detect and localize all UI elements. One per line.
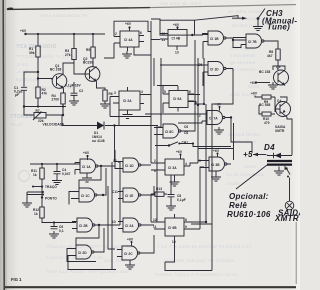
node keyer rail dots (41, 163, 58, 165)
wire leader line to relay (236, 165, 267, 189)
svg-text:2: 2 (154, 159, 156, 163)
node +6V above CI 3B (213, 149, 220, 157)
node +6V near R9 (251, 92, 258, 98)
gate CI 1B (203, 31, 233, 45)
svg-text:4k7: 4k7 (267, 54, 273, 58)
node +6V inside loop (173, 23, 180, 30)
wire CI3A pins (151, 163, 198, 170)
ground key common (22, 200, 32, 207)
wire R12 to bottom rail (42, 218, 76, 223)
svg-text:BC 558: BC 558 (259, 103, 271, 107)
diode D1 1N914 (92, 122, 109, 144)
svg-text:10: 10 (172, 240, 176, 244)
op-amp U CI 4A box (114, 31, 151, 55)
wire keyer top rail (30, 163, 80, 165)
svg-text:tica e pern: tica e pern (230, 46, 255, 52)
node +6V above CI 2C (127, 238, 134, 247)
capacitor C2 (71, 88, 84, 98)
wire bus x204 long (203, 58, 205, 104)
wire long verticals center (151, 21, 157, 222)
svg-text:?5 μF: ?5 μF (10, 122, 23, 128)
trimpot R7 VELOCIDADE (33, 109, 64, 127)
node +5 with arrow (243, 150, 266, 159)
gate CI 8C (158, 124, 188, 138)
svg-text:sita ureo sb. tesm: sita ureo sb. tesm (160, 1, 201, 7)
wire Q4 collector top to +6 (280, 97, 287, 101)
svg-text:.8 kΩ: .8 kΩ (16, 62, 29, 68)
wire R13 left down (150, 194, 152, 222)
wire CI7B inputs (233, 38, 241, 48)
svg-text:bo de choverado: bo de choverado (226, 172, 265, 178)
svg-text:XMTR: XMTR (274, 214, 299, 223)
svg-text:CI 1D: CI 1D (210, 68, 219, 72)
node +6V above CI 4A (125, 22, 132, 31)
svg-text:CI 2A: CI 2A (125, 224, 134, 228)
node CI7B input junction (232, 39, 234, 41)
ghost printed text background (10, 1, 276, 278)
relay contact (285, 167, 290, 177)
wire Q2 base (86, 73, 90, 75)
gate CI 1E lower right (112, 188, 146, 202)
svg-text:5: 5 (199, 159, 201, 163)
wire CI1A output to bus (79, 166, 115, 188)
wire CI9A pins (157, 85, 200, 113)
svg-text:1k: 1k (33, 173, 37, 177)
wire R10 left lead down (259, 105, 262, 114)
svg-text:CI 4A: CI 4A (124, 38, 133, 42)
wire R8 to Q3 base (277, 60, 279, 70)
label CH3 Manual-Tune handwritten (262, 9, 297, 32)
wire CI9A out to bus (194, 103, 204, 105)
svg-text:sinta belter: sinta belter (230, 53, 256, 59)
capacitor C8 (167, 192, 186, 202)
svg-text:C2: C2 (79, 89, 83, 93)
node bottom rail junction (53, 221, 55, 223)
node trimpot right junction (62, 114, 64, 116)
svg-text:CI 1C: CI 1C (81, 194, 90, 198)
gate CI 7A (197, 111, 228, 125)
wire diagonal to CH3 switch (195, 16, 239, 21)
svg-text:+6V: +6V (176, 150, 183, 154)
ground below C8 (166, 197, 176, 210)
gate CI 1D lower (113, 158, 146, 172)
wire CI9B pins (154, 222, 206, 229)
relay RU610-106 coil with diode D4 (267, 153, 292, 165)
svg-text:Relê: Relê (229, 201, 247, 210)
svg-text:C6: C6 (184, 125, 188, 129)
node +6V Q3 emitter (250, 81, 270, 85)
node CI2B output (98, 224, 100, 226)
svg-text:6: 6 (189, 90, 191, 94)
svg-text:0,1μF: 0,1μF (177, 198, 186, 202)
svg-text:13: 13 (112, 220, 116, 224)
wire bus x108 (108, 186, 115, 249)
switch CH3 (232, 9, 265, 24)
node +6V above CI 1A (83, 151, 90, 160)
svg-text:, conforme indicado ?m Circuit: , conforme indicado ?m Circuito. (160, 258, 235, 264)
wire Q4 emitter to relay rail (287, 117, 292, 155)
wire R2 bottom (37, 98, 39, 107)
wire CI1D-l inputs (115, 162, 118, 169)
svg-text:CI 2D: CI 2D (78, 251, 87, 255)
ground Q3 collector top (268, 66, 285, 89)
svg-text:sinale: sinale (226, 181, 240, 187)
switch CH2 lower (155, 141, 194, 147)
wire CI2D inputs (67, 249, 116, 270)
svg-text:2700: 2700 (52, 98, 60, 102)
wire CI7A inputs long bus (145, 114, 202, 123)
wire CI2D output (100, 228, 104, 252)
gate CI 2A lower (112, 218, 146, 232)
wire trimpot row (24, 104, 63, 115)
wire C1 top tap (24, 72, 38, 87)
svg-text:FIG 1: FIG 1 (11, 277, 22, 282)
svg-text:XMTR: XMTR (275, 129, 285, 133)
svg-text:5: 5 (164, 90, 166, 94)
svg-text:4: 4 (141, 90, 143, 94)
svg-text:CI 1A: CI 1A (82, 165, 91, 169)
wire outer loop rect CI 4B (160, 20, 195, 35)
wire R5 top lead (92, 34, 94, 47)
svg-text:movica ferida: movica ferida (228, 132, 259, 138)
svg-text:0,1μF/16V: 0,1μF/16V (65, 84, 82, 88)
svg-text:47k: 47k (42, 92, 48, 96)
resistor R11 (31, 164, 44, 185)
svg-text:CI 1B: CI 1B (210, 37, 219, 41)
top rule line (7, 8, 150, 10)
wire loop feed to CI 4B (151, 19, 160, 20)
wire CI7A output down to relay (225, 118, 252, 154)
ground below CI 2C (125, 260, 135, 269)
ground below CI 1A (82, 173, 92, 182)
svg-text:0,047: 0,047 (62, 172, 71, 176)
wire relay right to terminal (289, 178, 291, 182)
wire bus x161 (158, 58, 161, 128)
svg-text:13: 13 (175, 51, 179, 55)
op-amp U CI 2A box (110, 87, 151, 112)
svg-text:?CA DE AUDIO: ?CA DE AUDIO (16, 44, 57, 50)
node +6V above CI 7A (215, 103, 222, 111)
svg-text:TRAÇO: TRAÇO (45, 185, 57, 189)
resistor R2 (36, 87, 47, 98)
wire relay to contact (284, 166, 286, 170)
svg-text:CI 8C: CI 8C (165, 130, 174, 134)
transistor Q2 BC238 (83, 57, 100, 82)
svg-text:Tune): Tune) (267, 23, 290, 32)
node CI1A output (100, 165, 102, 167)
key PONTO (41, 196, 57, 200)
ground below CI 3B (211, 171, 221, 181)
wire key down to R12 (41, 187, 43, 208)
wire CI1B inputs (202, 42, 204, 59)
decorative ghost circle (19, 171, 30, 182)
wire Q1 collector up (63, 63, 74, 74)
node bus junctions (197, 104, 207, 223)
ground below CH3 (253, 24, 263, 31)
wire bottom long rail (165, 224, 212, 271)
wire key throws (27, 191, 44, 200)
gate CI 1C (74, 188, 103, 202)
ground below R6 (100, 101, 110, 108)
bottom page rule (5, 286, 296, 288)
wire Q1 base (38, 79, 52, 81)
wire diode to CI2A and down (109, 117, 158, 163)
wire CI1E output (146, 186, 154, 195)
svg-text:6: 6 (140, 31, 142, 35)
resistor R12 (33, 207, 44, 218)
svg-text:ou 4148: ou 4148 (92, 139, 105, 143)
svg-text:?onsma,?oloca o Transmissor no: ?onsma,?oloca o Transmissor no Ar, (154, 272, 238, 278)
svg-text:+6V: +6V (127, 238, 134, 242)
wire R4 bottom lead (62, 104, 64, 115)
svg-text:+5: +5 (243, 150, 253, 159)
svg-text:de corende: de corende (230, 67, 256, 73)
svg-text:CI 1D: CI 1D (125, 164, 134, 168)
node C1 tap junction (37, 71, 39, 73)
svg-text:470: 470 (264, 121, 270, 125)
gate CI 2D (71, 245, 100, 259)
ground below CI 3A (170, 179, 180, 186)
node diode output junction (113, 124, 115, 126)
transistor Q1 BC238 (50, 64, 67, 89)
wire bottom rail (24, 106, 66, 108)
node +6V above CI 3A (176, 150, 183, 159)
svg-text:12: 12 (153, 218, 157, 222)
key TRAÇO (32, 185, 57, 189)
wire CI4A feedback loop (104, 21, 151, 58)
wire +6V rail (26, 33, 106, 35)
wire CI8C inputs (154, 128, 158, 135)
resistor R3 (65, 49, 76, 60)
terminal SAIDA XMTR (274, 181, 304, 223)
wire R1 top lead (37, 34, 39, 46)
resistor R4 (52, 93, 66, 104)
left page edge line (2, 0, 5, 290)
svg-text:3: 3 (114, 91, 116, 95)
wire R1 bottom to base node (37, 57, 39, 87)
resistor R1 (29, 46, 40, 57)
capacitor C6 (51, 223, 64, 234)
svg-text:+6V: +6V (83, 151, 90, 155)
wire CI3B output down (230, 163, 232, 165)
wire CI1C inputs (69, 192, 74, 205)
svg-text:R5: R5 (86, 48, 90, 52)
resistor R6 (103, 90, 113, 101)
svg-text:8: 8 (185, 218, 187, 222)
ground below C6 (49, 231, 59, 238)
gate CI 2C (117, 246, 145, 260)
capacitor C1 (14, 86, 27, 107)
capacitor C4 (54, 164, 71, 178)
svg-text:12: 12 (162, 32, 166, 36)
svg-text:2: 2 (115, 32, 117, 36)
gate CI 1D (198, 62, 233, 76)
wire CI2B output bus (76, 225, 120, 246)
svg-text:PONTO: PONTO (45, 197, 57, 201)
transistor Q3 BC238 (259, 65, 289, 86)
wire vertical bus x119/120 (118, 110, 120, 225)
wire R5 bottom to Q2 collector (92, 58, 94, 67)
svg-text:+6V: +6V (173, 23, 180, 27)
wire CI4B left exit to bus (151, 39, 160, 41)
wire Q4 base (275, 97, 280, 112)
svg-text:snive: snive (244, 164, 256, 170)
label Opcional handwritten (227, 192, 271, 219)
svg-text:Opcional:: Opcional: (229, 192, 269, 201)
svg-text:0,1: 0,1 (59, 229, 64, 233)
svg-text:CI 2C: CI 2C (124, 252, 133, 256)
wire CI1B output to CI7B (233, 38, 246, 40)
wire diode anode left (62, 115, 93, 126)
svg-text:CI 7B: CI 7B (248, 40, 257, 44)
wire CI1D inputs left (160, 65, 203, 86)
svg-text:39k: 39k (29, 51, 35, 55)
svg-text:C11: C11 (112, 190, 118, 194)
svg-text:D4: D4 (264, 143, 275, 152)
op-amp U CI 4B box (160, 30, 187, 55)
transistor Q4 BC558 (259, 99, 291, 117)
label saida baixa (275, 125, 286, 133)
wire keyer bus to gates (75, 222, 78, 224)
op-amp U CI 9A box (163, 86, 194, 112)
ground below relay contact (274, 167, 284, 176)
wire CI2A-l output (146, 224, 154, 226)
svg-text:+6V: +6V (125, 22, 132, 26)
svg-text:CI 7A: CI 7A (209, 117, 218, 121)
node junction x204 (203, 103, 205, 105)
svg-text:CI 3A: CI 3A (168, 166, 177, 170)
svg-text:+6V: +6V (215, 103, 222, 107)
svg-text:R6: R6 (109, 92, 113, 96)
wire CI3B inputs (198, 161, 204, 168)
svg-text:27k: 27k (65, 53, 71, 57)
svg-text:BC238: BC238 (83, 61, 94, 65)
gate CI 3B (199, 157, 231, 171)
svg-text:CI 4B: CI 4B (172, 37, 181, 41)
svg-text:4: 4 (185, 162, 187, 166)
svg-text:kΩ trimpot: kΩ trimpot (16, 77, 40, 83)
resistor R9 horizontal (258, 95, 275, 104)
wire Q1 emitter to R4 (62, 89, 65, 94)
svg-text:CI 1E: CI 1E (125, 194, 133, 198)
svg-text:+6V: +6V (213, 149, 220, 153)
wire vertical bus x115 (114, 150, 116, 162)
svg-text:CI 2A: CI 2A (123, 99, 132, 103)
wire CI4B output to CI1B (195, 34, 209, 36)
wire Q2 emitter down to R6 (97, 82, 106, 91)
svg-text:μF: μF (15, 93, 19, 97)
op-amp U CI 3A box (154, 159, 190, 179)
svg-text:+6V: +6V (251, 92, 258, 96)
svg-text:RU610·106: RU610·106 (227, 210, 271, 219)
wire CI8C out down (185, 115, 195, 131)
wire CI7B output to R8 (267, 41, 278, 49)
svg-text:+6V: +6V (20, 29, 27, 33)
svg-text:CI 9B: CI 9B (168, 226, 177, 230)
resistor R10 (262, 112, 275, 125)
wire aux vertical right of CI7A (233, 123, 235, 160)
gate CI 1A (75, 159, 103, 173)
svg-text:CI 9A: CI 9A (173, 97, 182, 101)
ground below C2 (69, 98, 79, 105)
ground below CI 7A (214, 127, 224, 134)
svg-text:VELOCIDADE: VELOCIDADE (43, 123, 65, 127)
svg-text:de adhe terinbe: de adhe terinbe (228, 9, 264, 15)
svg-text:CI 2B: CI 2B (79, 224, 88, 228)
wire CI1D output down (232, 69, 234, 105)
node rail junction dots (37, 33, 94, 35)
svg-text:C8: C8 (184, 131, 188, 135)
node bottom rail dots (23, 105, 64, 107)
wire R3 top lead (73, 34, 75, 49)
right page edge faint line (295, 222, 297, 284)
svg-text:9: 9 (185, 225, 187, 229)
resistor R5 (86, 47, 95, 58)
wire CI1A inputs (75, 163, 80, 175)
resistor R8 (267, 49, 280, 60)
svg-text:r 12 ??s,pode-se eliminar T1.D: r 12 ??s,pode-se eliminar T1.D2,D3,C1? (158, 244, 252, 250)
wire CI1C output (103, 168, 106, 195)
wire bus x112 long vertical (111, 162, 113, 269)
svg-text:BC 238: BC 238 (259, 70, 271, 74)
resistor R13 (151, 187, 167, 196)
wire R3 bottom to Q2 base (74, 60, 86, 75)
node Q1 base junction (37, 77, 39, 79)
wire CI3A bottom tap (170, 175, 172, 192)
wire CI1D-l output (146, 164, 151, 166)
wire C2 top to Q2 base line (73, 82, 75, 88)
gate CI 7B (241, 34, 267, 48)
wire CI2C output (145, 235, 154, 253)
wire right bus x212 (191, 76, 233, 224)
svg-text:ge sentove: ge sentove (230, 60, 256, 66)
ground below CI 2A (123, 112, 133, 119)
ground below CI 4A (122, 51, 132, 58)
op-amp U CI 9B box (153, 214, 190, 244)
svg-text:1k: 1k (34, 212, 38, 216)
node +6V top-left supply (20, 29, 27, 35)
node CI4B right junction (191, 34, 193, 36)
wire double horizontals to relay feed (193, 144, 234, 149)
svg-text:BC 238: BC 238 (50, 68, 62, 72)
wire CI2A input loop to bus (109, 97, 111, 117)
gate CI 2B (72, 218, 101, 232)
wire bus x195-206 (195, 58, 206, 229)
ground below C4 (52, 178, 62, 185)
svg-text:11: 11 (153, 225, 157, 229)
wire bus x195 upper (194, 40, 196, 115)
svg-text:anna siana tamat ?e: anna siana tamat ?e (40, 13, 87, 19)
